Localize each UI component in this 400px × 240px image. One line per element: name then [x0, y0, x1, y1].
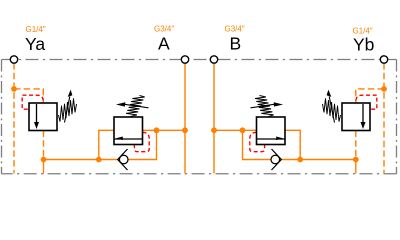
svg-text:A: A — [158, 34, 170, 54]
wire check C2 seat to junction — [281, 159, 300, 161]
pilot line V3 (red dashed) — [250, 132, 265, 151]
wire Ya pilot line (dashed) — [14, 63, 384, 173]
node left check junction — [96, 157, 102, 163]
check valve C2 — [271, 149, 281, 170]
wire riser to valve V2 left port — [99, 130, 114, 159]
wire A service line — [44, 63, 356, 173]
svg-text:G3/4″: G3/4″ — [225, 25, 245, 34]
wire load line right — [300, 159, 356, 161]
overcenter valve V2 body — [114, 96, 149, 145]
manifold enclosure (dash-dot border) — [2, 60, 397, 174]
node A line junction — [182, 127, 188, 133]
svg-text:G3/4″: G3/4″ — [154, 25, 174, 34]
node right check junction — [297, 157, 303, 163]
wire load port right — [355, 160, 357, 174]
overcenter valve V2 flow arrow — [114, 138, 143, 140]
relief valve V1 body — [29, 90, 77, 131]
svg-text:Yb: Yb — [353, 35, 374, 55]
overcenter valve V3 body — [251, 96, 286, 145]
svg-text:G1/4″: G1/4″ — [26, 25, 46, 34]
wire Ya branch to valve V1 top — [14, 89, 43, 103]
wire B service line — [213, 63, 215, 173]
node V3 inlet junction — [240, 127, 246, 133]
wire load line left — [44, 159, 99, 161]
port Ya — [10, 56, 17, 63]
wire V4 drain (dashed) — [355, 131, 357, 160]
relief valve V4 body — [323, 90, 371, 131]
node Ya branch — [11, 86, 17, 92]
overcenter valve V3 flow arrow — [257, 138, 286, 140]
wire V1 drain (dashed) — [43, 131, 45, 160]
node V2 outlet junction — [154, 127, 160, 133]
overcenter valve V2 adjustable spring — [126, 96, 145, 117]
pilot line V2 (red dashed) — [134, 132, 149, 151]
relief valve V4 adjustable spring — [323, 98, 341, 121]
wire B junction to valve V3 left port — [214, 129, 257, 131]
wire A junction to valve V2 right port — [143, 129, 186, 131]
port B — [210, 56, 217, 63]
node left drain junction — [41, 157, 47, 163]
wire Yb pilot line (dashed) — [383, 63, 385, 173]
node right drain junction — [353, 157, 359, 163]
port A — [181, 56, 188, 63]
relief valve V4 poppet arrow — [362, 104, 364, 123]
wire riser V2 right to check line — [128, 130, 157, 159]
wire riser to valve V3 right port — [285, 130, 300, 159]
pilot line V1 (red dashed) — [22, 95, 377, 152]
check valve C1 — [118, 149, 128, 170]
node Yb branch — [381, 86, 387, 92]
relief valve V1 poppet arrow — [36, 104, 38, 123]
port Yb — [380, 56, 387, 63]
svg-text:Ya: Ya — [25, 34, 45, 54]
pilot line V4 (red dashed) — [356, 95, 377, 109]
wire riser V3 left to check line — [243, 130, 272, 159]
svg-text:B: B — [230, 34, 242, 54]
relief valve V1 adjustable spring — [59, 98, 77, 121]
wire load port left — [43, 160, 45, 174]
overcenter valve V3 adjustable spring — [255, 96, 274, 117]
wire Yb branch to valve V4 top — [356, 89, 384, 103]
wire check C1 seat to junction — [99, 159, 118, 161]
node B line junction — [211, 127, 217, 133]
